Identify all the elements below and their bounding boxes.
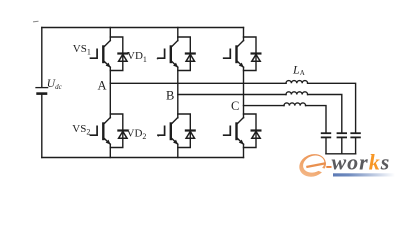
wire: phase B to capacitor xyxy=(308,95,342,134)
wire: leg2 midpoint (node B) vertical xyxy=(177,67,179,118)
wire: leg1 midpoint (node A) vertical xyxy=(109,67,111,118)
IGBT lower leg2 xyxy=(158,118,178,145)
inductor phase C xyxy=(284,103,306,106)
svg-text:A: A xyxy=(98,78,107,92)
wire: leg3 emitter to bottom rail xyxy=(243,144,245,157)
diode upper leg2 xyxy=(186,54,195,62)
IGBT upper leg2 xyxy=(158,41,178,68)
svg-text:B: B xyxy=(166,88,174,102)
wire: capacitor common bus xyxy=(326,153,356,155)
wire: leg2 upper diode branch xyxy=(178,37,191,71)
svg-text:C: C xyxy=(231,99,239,113)
wire: leg3 upper diode branch xyxy=(244,37,257,71)
wire: phase A to capacitor xyxy=(308,83,356,133)
capacitor phase A (right): plates xyxy=(351,133,360,154)
wire: leg1 lower diode branch xyxy=(110,114,123,148)
IGBT upper leg3 xyxy=(224,41,244,68)
wire: leg3 lower diode branch xyxy=(244,114,257,148)
svg-text:works: works xyxy=(332,149,391,174)
IGBT VS2 (lower leg1) xyxy=(91,118,111,145)
stray dot right of VD1 xyxy=(157,58,159,60)
wire: phase B output from node B xyxy=(178,94,286,96)
battery Udc: negative plate xyxy=(38,92,46,95)
wire: top DC rail xyxy=(42,27,244,29)
wire: phase A output from node A xyxy=(110,82,286,84)
svg-text:LA: LA xyxy=(292,62,305,77)
svg-text:VD1: VD1 xyxy=(127,50,147,64)
svg-text:Udc: Udc xyxy=(47,78,63,91)
diode lower leg3 xyxy=(252,131,261,139)
inductor phase B xyxy=(286,92,308,95)
wire: left rail upper (to battery +) xyxy=(41,28,43,88)
svg-text:VS2: VS2 xyxy=(72,123,90,137)
wire: phase C to capacitor xyxy=(306,106,326,133)
wire: leg3 collector drop from top rail xyxy=(243,28,245,41)
wire: phase C output from node C xyxy=(244,105,285,107)
diode VD2 (anti-parallel, lower leg1) xyxy=(118,131,127,139)
inductor LA phase A xyxy=(286,81,308,84)
wire: leg2 collector drop from top rail xyxy=(177,28,179,41)
diode VD1 (anti-parallel, upper leg1) xyxy=(118,54,127,62)
wire: bottom DC rail xyxy=(42,157,244,159)
svg-text:VS1: VS1 xyxy=(73,43,91,57)
e-works watermark logo: orange e swoosh xyxy=(296,150,329,180)
stray dot right of VD2 xyxy=(158,135,160,137)
capacitor phase B (middle): plates xyxy=(338,133,347,154)
wire: left rail lower (battery - to bottom rail) xyxy=(41,94,43,158)
wire: leg2 lower diode branch xyxy=(178,114,191,148)
IGBT VS1 (upper leg1) xyxy=(91,41,111,68)
IGBT lower leg3 xyxy=(224,118,244,145)
capacitor phase C (left): plates xyxy=(322,133,331,154)
wire: leg1 upper diode branch xyxy=(110,37,123,71)
diode upper leg3 xyxy=(252,54,261,62)
wire: leg1 collector drop from top rail xyxy=(109,28,111,41)
e-works watermark logo: blue gradient underline xyxy=(333,173,395,176)
stray mark top-left xyxy=(34,20,39,23)
svg-text:VD2: VD2 xyxy=(127,128,147,142)
wire: leg3 midpoint (node C) vertical xyxy=(243,67,245,118)
diode lower leg2 xyxy=(186,131,195,139)
wire: leg2 emitter to bottom rail xyxy=(177,144,179,157)
e-works watermark logo: hyphen xyxy=(326,166,331,168)
battery Udc: positive plate xyxy=(36,87,48,89)
wire: leg1 emitter to bottom rail xyxy=(109,144,111,157)
